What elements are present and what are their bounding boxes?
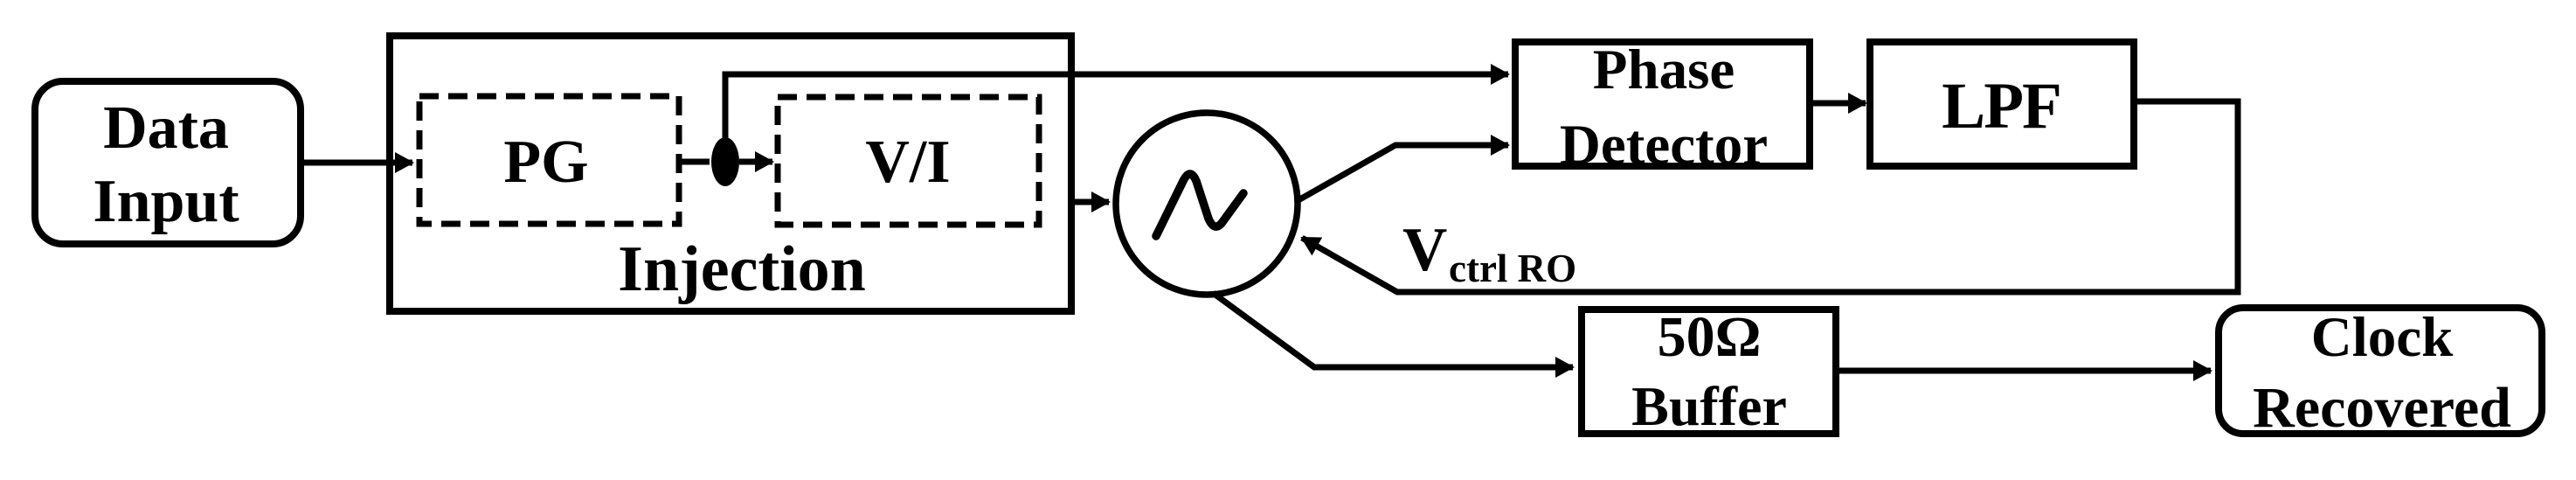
svg-text:V/I: V/I <box>865 129 950 196</box>
svg-text:LPF: LPF <box>1942 70 2060 143</box>
svg-text:Recovered: Recovered <box>2253 376 2511 440</box>
svg-text:ctrl RO: ctrl RO <box>1449 247 1576 290</box>
svg-text:Buffer: Buffer <box>1631 375 1787 437</box>
svg-text:Clock: Clock <box>2311 306 2454 369</box>
svg-text:Data: Data <box>103 94 229 162</box>
svg-text:Injection: Injection <box>618 233 866 305</box>
svg-text:PG: PG <box>503 129 588 196</box>
svg-text:50Ω: 50Ω <box>1658 305 1762 369</box>
svg-text:Phase: Phase <box>1593 38 1735 101</box>
svg-text:Detector: Detector <box>1560 114 1768 177</box>
svg-text:Input: Input <box>93 168 239 235</box>
svg-text:V: V <box>1402 216 1447 284</box>
